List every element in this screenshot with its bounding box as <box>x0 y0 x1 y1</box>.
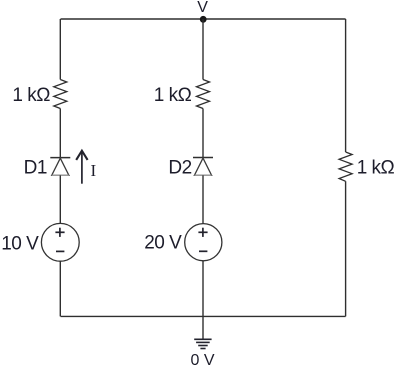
voltage source V2 (20 V) <box>185 224 222 261</box>
node V junction dot <box>200 16 207 23</box>
wire: top horizontal rail (node V) <box>61 18 346 20</box>
diode D1 (cathode bar + triangle) <box>50 158 70 176</box>
wire: D1 to source V1 <box>59 175 61 223</box>
svg-text:10 V: 10 V <box>1 233 39 254</box>
svg-text:D1: D1 <box>24 158 47 179</box>
wire: left branch from top rail to R1 <box>59 19 61 80</box>
svg-text:1 kΩ: 1 kΩ <box>154 85 192 106</box>
wire: V2 to bottom rail <box>202 261 204 317</box>
wire: middle branch from node V to R2 <box>202 19 204 80</box>
svg-text:20 V: 20 V <box>144 232 182 253</box>
svg-text:D2: D2 <box>168 157 191 178</box>
diode D2 (cathode bar + triangle) <box>193 158 213 176</box>
ground symbol <box>194 316 211 348</box>
svg-text:0 V: 0 V <box>190 352 214 369</box>
resistor R2 (1 kOhm, middle branch) <box>197 80 210 109</box>
wire: R1 to D1 <box>59 109 61 158</box>
resistor R1 (1 kOhm, left branch) <box>54 80 67 109</box>
wire: D2 to source V2 <box>202 175 204 224</box>
wire: right branch from top rail to R3 <box>345 19 347 152</box>
wire: V1 to bottom rail <box>59 261 61 316</box>
wire: R2 to D2 <box>202 109 204 158</box>
wire: bottom horizontal rail (0 V) <box>61 315 346 317</box>
resistor R3 (1 kOhm, right branch) <box>339 152 352 181</box>
svg-text:1 kΩ: 1 kΩ <box>357 158 395 179</box>
svg-text:V: V <box>197 0 208 16</box>
svg-text:I: I <box>91 161 97 180</box>
voltage source V1 (10 V) <box>41 223 79 261</box>
current arrow I (pointing up) <box>76 151 87 184</box>
svg-text:1 kΩ: 1 kΩ <box>12 85 50 106</box>
wire: R3 to bottom rail <box>345 181 347 316</box>
